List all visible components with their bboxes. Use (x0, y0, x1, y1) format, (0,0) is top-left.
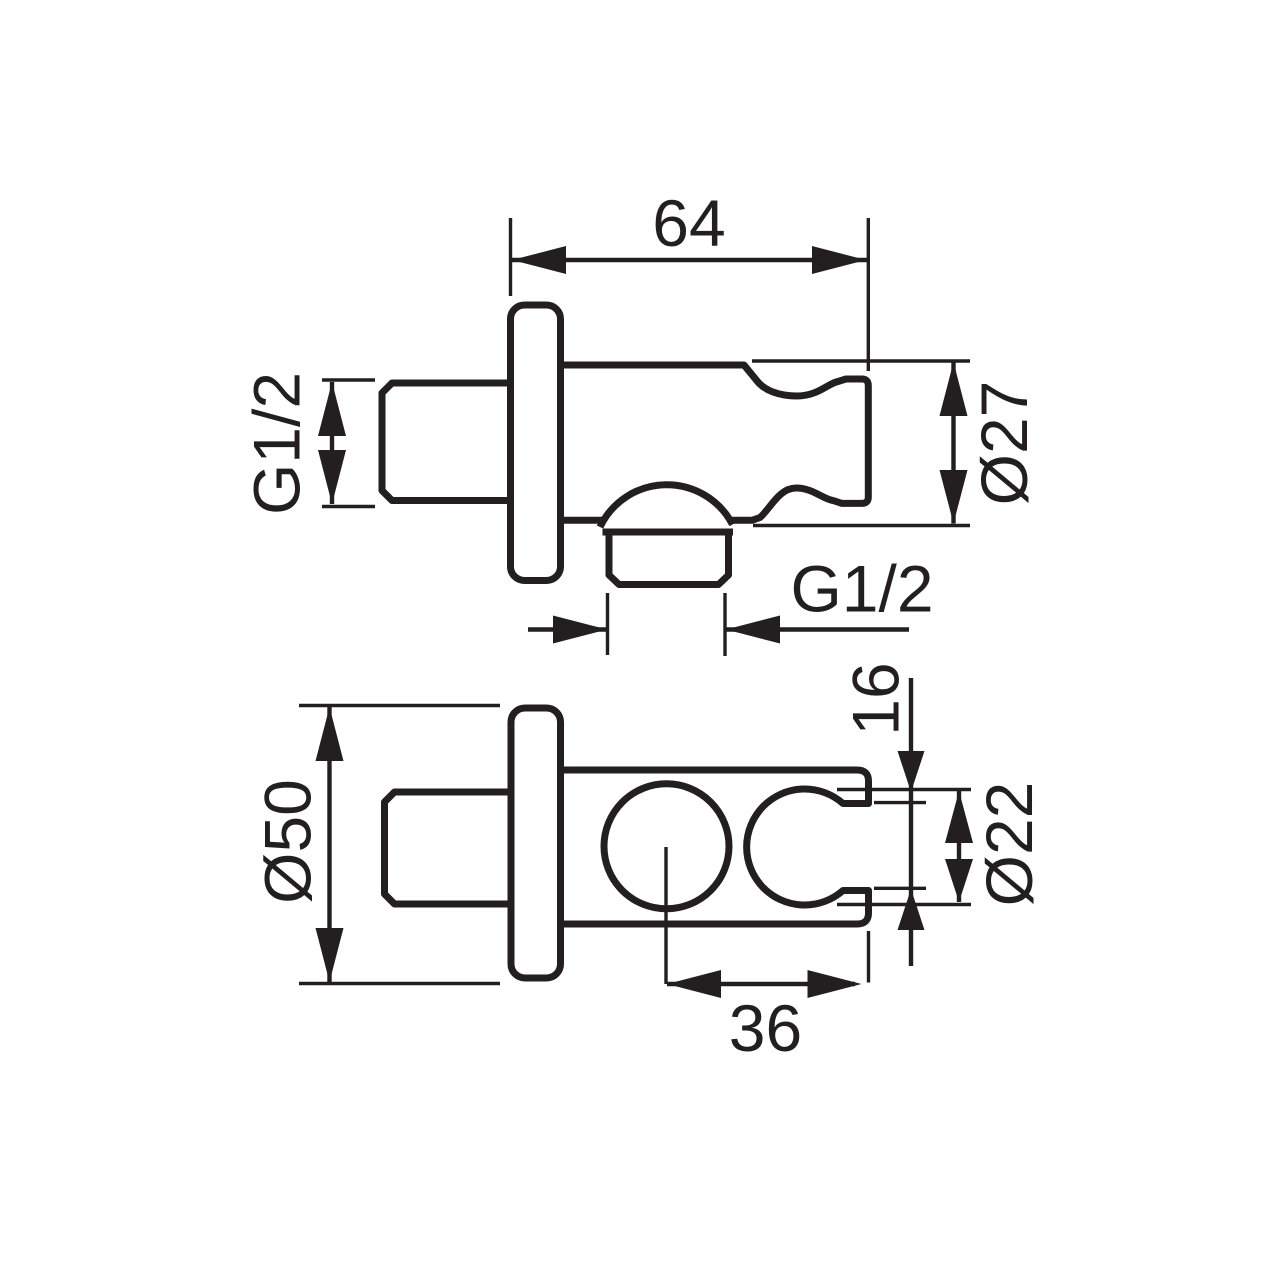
svg-text:Ø50: Ø50 (251, 779, 325, 904)
svg-text:64: 64 (652, 186, 725, 260)
svg-text:Ø27: Ø27 (967, 381, 1041, 506)
svg-text:Ø22: Ø22 (972, 782, 1046, 907)
svg-text:G1/2: G1/2 (790, 552, 933, 626)
svg-text:G1/2: G1/2 (240, 372, 314, 515)
svg-text:16: 16 (839, 662, 913, 735)
svg-text:36: 36 (729, 991, 802, 1065)
